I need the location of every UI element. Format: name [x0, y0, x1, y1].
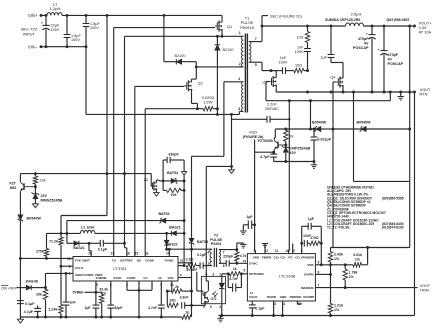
svg-text:1%: 1%: [101, 291, 106, 295]
svg-text:1: 1: [207, 262, 209, 266]
resistor 10k z1: [163, 188, 185, 197]
wire vdd row y129: [275, 128, 315, 130]
svg-text:B0540W: B0540W: [357, 121, 372, 125]
node top rail x164: [162, 14, 165, 17]
wire T1 pin4 to pgnd: [224, 82, 244, 157]
svg-text:11: 11: [275, 249, 279, 253]
capacitor 4.7uF vdd: [260, 152, 277, 161]
optocoupler transistor: [201, 290, 217, 302]
svg-text:+: +: [41, 21, 44, 26]
resistor 1.24k: [49, 305, 64, 318]
svg-text:VIN−: VIN−: [28, 45, 38, 50]
svg-text:BAT54: BAT54: [158, 212, 169, 216]
optocoupler collector: [206, 276, 208, 289]
svg-text:1μF: 1μF: [246, 215, 252, 219]
wire pwrgd stub: [297, 301, 301, 304]
node cap row x124: [123, 242, 126, 245]
wire VCC bus down: [19, 258, 21, 317]
svg-text:4V: 4V: [388, 58, 393, 62]
svg-text:FZT600B: FZT600B: [258, 139, 274, 143]
transistor Z1: [144, 174, 157, 192]
wire FZT600B base: [278, 144, 286, 146]
wire VFB leg down: [330, 265, 332, 304]
svg-text:7: 7: [255, 37, 257, 41]
node L2 x67: [65, 232, 68, 235]
svg-text:(800)554-5565: (800)554-5565: [382, 196, 404, 200]
svg-text:470Ω: 470Ω: [310, 236, 319, 240]
svg-text:ON: ON: [1, 286, 7, 290]
node VIN- x46: [45, 45, 48, 48]
svg-text:10k: 10k: [171, 193, 177, 197]
svg-text:1.5μF: 1.5μF: [71, 34, 81, 38]
svg-text:4.7k: 4.7k: [240, 254, 247, 258]
capacitor 2.2nF 250VAC: [265, 102, 279, 122]
node vpower right: [320, 242, 323, 245]
node cap row x89: [88, 242, 91, 245]
wire notes box top: [354, 92, 410, 181]
wire pgnd vertical lower: [191, 244, 193, 317]
svg-text:PA0918: PA0918: [240, 25, 254, 30]
node optodrv left: [227, 272, 230, 275]
node Q1 source: [221, 35, 224, 38]
svg-text:+: +: [365, 31, 368, 36]
svg-text:0.020Ω: 0.020Ω: [202, 96, 215, 100]
svg-text:270k: 270k: [36, 250, 44, 254]
wire Ycap drop: [232, 114, 267, 166]
wire sync row: [229, 259, 247, 263]
wire pin20 stub: [89, 243, 91, 256]
svg-text:100V: 100V: [279, 61, 288, 65]
wire pin18 stub: [125, 243, 127, 256]
svg-text:20k: 20k: [40, 179, 46, 183]
wire 5vref row: [85, 281, 96, 292]
wire FG drop: [288, 101, 291, 254]
wire pin16 row: [178, 258, 193, 264]
svg-text:VFB: VFB: [168, 276, 175, 280]
zener MMSZ5245B 15V: [32, 187, 63, 208]
transformer T1 secondary: [249, 37, 257, 67]
wire FZT600B collector: [273, 129, 276, 139]
svg-text:5: 5: [244, 268, 246, 272]
LT3781 bottom pin numbers: [96, 283, 174, 287]
wire right sense bus lower: [409, 129, 411, 248]
svg-text:6: 6: [223, 264, 225, 268]
node RTN x353: [352, 91, 355, 94]
svg-text:VDD: VDD: [249, 129, 257, 134]
resistor 1.78k: [343, 265, 358, 288]
wire UVLO leg: [60, 266, 62, 304]
svg-text:3: 3: [238, 107, 240, 111]
ground T2 sync: [237, 243, 247, 250]
svg-text:100V: 100V: [295, 50, 304, 54]
resistor 71.2k: [49, 232, 63, 266]
svg-text:3: 3: [212, 272, 214, 276]
wire TG gate bus: [114, 28, 215, 257]
optocoupler LED: [219, 276, 224, 303]
wire Z1 drain: [156, 179, 163, 182]
capacitor 1.5uF 100V b: [83, 15, 101, 46]
LTC1698 bottom labels: [267, 295, 314, 299]
node drive node: [183, 219, 186, 222]
svg-text:2.2nF: 2.2nF: [267, 102, 277, 106]
wire vpower right leg: [320, 226, 322, 264]
svg-text:5VREF: 5VREF: [186, 268, 198, 272]
resistor 270k: [36, 233, 49, 258]
svg-text:10Ω: 10Ω: [296, 36, 303, 40]
capacitor 1uF secondary: [320, 26, 334, 61]
resistor 3.3 ohm: [178, 257, 200, 267]
svg-text:5: 5: [255, 63, 257, 67]
svg-text:62pF: 62pF: [115, 306, 123, 310]
svg-text:14: 14: [250, 291, 254, 295]
svg-text:1/2W: 1/2W: [204, 100, 213, 104]
svg-text:1%: 1%: [334, 257, 340, 261]
wire opto pin5 down: [204, 304, 206, 306]
LTC1698 left pin number 5: [244, 268, 246, 272]
diode B2100 bootstrap: [175, 54, 197, 65]
resistor 10k shdn: [36, 288, 48, 317]
svg-text:(619)674-8100: (619)674-8100: [382, 226, 404, 230]
node vdd mid: [331, 128, 358, 130]
resistor 470 ohm vpower: [307, 236, 321, 245]
svg-text:MMSZ5245B: MMSZ5245B: [41, 199, 63, 203]
transformer T2 label: [210, 234, 223, 247]
svg-text:1: 1: [239, 31, 241, 35]
wire T2 pin7 row: [219, 249, 237, 251]
wire pin9 stub: [178, 273, 192, 277]
svg-text:+: +: [377, 47, 380, 52]
node 22uF top: [45, 14, 48, 17]
svg-text:9: 9: [318, 270, 320, 274]
svg-text:SYNC: SYNC: [249, 261, 258, 265]
resistor 10 ohm snubber A: [296, 26, 309, 43]
svg-text:GND: GND: [280, 295, 288, 299]
capacitor 1uF vpower: [302, 217, 322, 230]
diode BAT54 catch T2: [189, 238, 208, 245]
LT3781 pin 13: [67, 257, 90, 263]
wire left rail y173.6: [20, 173, 151, 175]
wire right sense bus upper: [409, 26, 411, 129]
LT3781 pin 2: [69, 264, 84, 270]
node Z1 drain node: [162, 179, 165, 182]
node top rail x67: [66, 14, 69, 17]
svg-text:LTC1698: LTC1698: [279, 274, 296, 279]
svg-text:4.7nF: 4.7nF: [229, 277, 238, 281]
wire opto pin1 up: [222, 274, 228, 277]
label 36V-72V INPUT: [21, 27, 38, 37]
svg-text:4: 4: [238, 77, 240, 81]
node RTN x409: [408, 91, 411, 94]
svg-text:22μF: 22μF: [51, 24, 60, 28]
node bat54 cathode: [183, 179, 186, 182]
svg-text:VIN+: VIN+: [28, 13, 38, 18]
resistor 10 ohm snubber B: [286, 63, 308, 73]
ground primary 2: [229, 166, 235, 173]
resistor 10 ohm vc: [167, 299, 178, 308]
inductor L1 1.2uH: [47, 2, 62, 16]
svg-text:1μF: 1μF: [308, 217, 314, 221]
node rail 20k: [34, 172, 37, 175]
svg-text:AT 10A: AT 10A: [419, 30, 432, 35]
transformer T2 core: [214, 248, 216, 267]
capacitor 10nF vpower: [303, 234, 311, 247]
svg-text:(FIGURE 2b): (FIGURE 2b): [243, 135, 264, 139]
op-amp U2 LTC1698 box: [247, 254, 315, 301]
wire Ycap to FG riser: [270, 118, 290, 120]
node RTN x331: [330, 91, 333, 94]
ground open inline: [182, 172, 187, 181]
transformer T1 label: [240, 16, 254, 30]
capacitor 0.1uF vcc left: [17, 301, 35, 306]
ground vdd: [311, 160, 317, 168]
LTC1698 bottom numbers: [274, 302, 301, 306]
inductor L2 1mH: [80, 226, 95, 234]
LT3781 pin13 wire dot: [0, 0, 1, 1]
node vdd riser: [309, 128, 312, 131]
svg-text:15V: 15V: [41, 194, 48, 198]
svg-text:6: 6: [210, 305, 212, 309]
node clamp top: [216, 35, 219, 38]
wire 4.7uF top jog: [0, 0, 1, 1]
wire z1 bus down: [183, 181, 185, 221]
wire opto pin6 stub: [0, 0, 1, 1]
node Ycap tap: [230, 113, 233, 116]
optocoupler pins bottom: [203, 305, 221, 309]
output terminal VOUT+: [413, 21, 432, 35]
wire Q1 source: [221, 32, 223, 36]
svg-text:1.2μH: 1.2μH: [50, 6, 61, 11]
ground Z1 source: [154, 191, 159, 196]
svg-text:VPOWER: VPOWER: [301, 255, 316, 259]
svg-text:1%: 1%: [349, 275, 355, 279]
capacitor 0.1uF vcc row: [89, 240, 125, 252]
wire Q3 gate route FG: [266, 82, 390, 101]
svg-text:L2 1mH: L2 1mH: [81, 226, 94, 230]
capacitor 22uF 100V input: [41, 15, 60, 46]
resistor 1k optodrv: [229, 267, 240, 276]
wire BG gate bus to Q2: [135, 86, 185, 256]
LTC1698 top numbers: [253, 249, 303, 253]
svg-text:220pF: 220pF: [223, 255, 234, 259]
capacitor 470uF POSCAP a: [353, 26, 376, 92]
wire FZT853 emitter: [19, 193, 21, 215]
svg-text:PGND: PGND: [267, 295, 277, 299]
node 5vref node: [94, 291, 97, 294]
node CG row129: [332, 128, 335, 131]
node vpower left: [300, 242, 303, 245]
capacitor 1.5uF 100V a: [64, 15, 82, 46]
svg-text:1: 1: [219, 272, 221, 276]
svg-text:100V: 100V: [90, 26, 99, 30]
node VIN- x67: [66, 45, 69, 48]
svg-text:1.24k: 1.24k: [49, 308, 58, 312]
wire drive bus down: [183, 221, 185, 266]
wire OVPIN row: [315, 273, 330, 275]
wire SW bus y36.3: [125, 36, 240, 243]
optocoupler OT box: [201, 276, 225, 303]
svg-text:0.1μF: 0.1μF: [255, 307, 265, 311]
svg-text:INPUT: INPUT: [23, 32, 36, 37]
svg-text:2: 2: [219, 305, 221, 309]
LT3781 top pin numbers: [88, 252, 170, 256]
svg-text:VAUX: VAUX: [249, 295, 258, 299]
svg-text:4.7nF: 4.7nF: [148, 306, 157, 310]
wire bootstrap bus x164: [164, 15, 176, 61]
capacitor 1uF ref: [84, 292, 99, 317]
capacitor 470uF POSCAP b: [377, 26, 403, 92]
wire Q4 source: [342, 88, 344, 92]
svg-text:BAS21: BAS21: [73, 246, 85, 250]
svg-text:BG: BG: [137, 259, 142, 263]
capacitor 1nF 100V snubber A: [295, 43, 311, 71]
node emitter: [272, 151, 275, 154]
wire VIN- return bus: [86, 47, 239, 115]
wire optodrv to pin: [241, 273, 247, 275]
wire pin10 drop: [167, 281, 172, 291]
wire bootstrap down: [195, 62, 197, 79]
svg-text:Q2: Q2: [198, 81, 203, 85]
wire Q4 drain feed: [331, 61, 343, 77]
svg-text:0.1μF: 0.1μF: [197, 253, 207, 257]
svg-text:T1, T2: PULSE: T1, T2: PULSE: [327, 226, 350, 230]
svg-text:BGTREF: BGTREF: [120, 259, 133, 263]
node sync row: [235, 262, 238, 265]
svg-text:4: 4: [283, 302, 285, 306]
svg-text:PWRGD: PWRGD: [290, 295, 303, 299]
op-amp U1 LT3781 box: [73, 257, 178, 282]
transformer T1 tertiary: [238, 77, 243, 111]
LTC1698 right labels: [301, 263, 314, 290]
svg-text:19: 19: [111, 252, 115, 256]
svg-text:BAT54: BAT54: [167, 171, 178, 175]
node OVPIN: [329, 273, 332, 276]
wire T1 pin3 to rail: [239, 111, 243, 114]
node vdd 2k: [284, 128, 287, 131]
svg-text:1μF: 1μF: [320, 56, 327, 60]
svg-text:853: 853: [10, 186, 16, 190]
svg-text:7: 7: [318, 284, 320, 288]
svg-text:1nF: 1nF: [297, 45, 304, 49]
diode B0540W linear: [18, 215, 42, 259]
LT3781 top labels: [112, 259, 174, 263]
capacitor 3.3nF vc: [180, 295, 192, 308]
svg-text:VOUT: VOUT: [420, 284, 431, 288]
diode BAT54 z1: [163, 171, 184, 183]
capacitor 1uF VDD bypass: [240, 215, 255, 235]
capacitor 220pF sync: [219, 255, 234, 267]
capacitor 4.7uF vcc: [24, 306, 41, 318]
wire cg stub: [292, 244, 294, 254]
wire vdd pin1: [254, 251, 257, 254]
node rail x124: [123, 172, 126, 175]
svg-text:2k: 2k: [175, 285, 179, 289]
svg-text:71.2k: 71.2k: [49, 240, 58, 244]
ground secondary: [217, 316, 223, 322]
output terminal VOUT RTN: [413, 87, 431, 97]
svg-text:15: 15: [135, 252, 139, 256]
node gnd166: [230, 165, 233, 168]
node out x372: [371, 25, 374, 28]
wire RTN right bus: [414, 92, 416, 316]
wire current sense bus: [145, 109, 203, 257]
svg-text:TRIM: TRIM: [420, 289, 429, 293]
node rail x331: [330, 25, 333, 28]
label VDD FIGURE 2b: [243, 129, 264, 152]
svg-text:B2100: B2100: [175, 54, 186, 58]
input terminal VIN-: [28, 45, 43, 50]
svg-text:100V: 100V: [71, 38, 80, 42]
svg-text:1.5μF: 1.5μF: [90, 22, 100, 26]
svg-text:4: 4: [205, 272, 207, 276]
svg-text:B0540W: B0540W: [27, 216, 42, 220]
wire opto pin2 down: [220, 304, 223, 317]
diode B0540W vdd1: [312, 121, 330, 132]
transistor FZT600B: [258, 139, 278, 151]
wire pgnd vertical upper: [191, 156, 193, 238]
svg-text:1μF: 1μF: [84, 306, 90, 310]
wire ltc pgnd gnd: [272, 301, 284, 317]
svg-text:Q1: Q1: [227, 25, 232, 29]
node top rail x107: [106, 14, 109, 17]
node shdn node: [44, 286, 47, 289]
wire Q4 gate bus CG: [333, 82, 336, 248]
wire notes box bottom: [331, 247, 410, 249]
resistor 2k vc: [172, 285, 192, 294]
capacitor 4.7nF cc: [148, 281, 165, 317]
svg-text:100V: 100V: [51, 28, 60, 32]
transistor Q3: [262, 71, 277, 88]
wire row215 corner: [60, 216, 62, 238]
node 3.3ohm left: [183, 264, 186, 267]
svg-text:2.5μH: 2.5μH: [351, 12, 362, 17]
LTC1698 right numbers: [318, 261, 320, 288]
svg-text:0.022μF: 0.022μF: [318, 138, 332, 142]
wire L2 row right: [95, 232, 170, 234]
wire Z1 node vertical: [162, 160, 164, 190]
node VCC 270k: [45, 257, 48, 260]
svg-text:16: 16: [180, 258, 184, 262]
diode B2100 clamp: [215, 36, 234, 108]
notes text block: [327, 185, 404, 229]
label 5VREF secondary: [186, 268, 198, 272]
node 2k bottom: [284, 144, 287, 147]
wire Q3 source to rail: [276, 88, 414, 92]
svg-text:16: 16: [243, 259, 247, 263]
transformer T2 secondary: [219, 250, 221, 264]
svg-text:2k: 2k: [290, 135, 294, 139]
optocoupler pins top: [205, 272, 221, 276]
wire pin14 row: [167, 248, 212, 250]
wire 5vref opto: [197, 272, 202, 291]
svg-text:20: 20: [88, 252, 92, 256]
svg-text:OVPIN: OVPIN: [304, 273, 314, 277]
wire sense right: [213, 109, 217, 115]
svg-text:1%: 1%: [334, 308, 340, 312]
svg-text:10Ω: 10Ω: [295, 63, 302, 67]
svg-text:Q4: Q4: [330, 76, 335, 80]
wire primary gnd rail: [20, 316, 181, 318]
svg-text:13: 13: [67, 257, 71, 261]
node VFB div: [329, 263, 332, 266]
svg-text:10k: 10k: [36, 293, 42, 297]
svg-text:B0540W: B0540W: [312, 121, 327, 125]
svg-text:OT1: OT1: [211, 297, 217, 301]
wire FG riser to rail: [389, 92, 391, 101]
svg-text:P0203: P0203: [211, 242, 221, 246]
capacitor 0.022uF vdd: [311, 128, 332, 162]
resistor 1k pgnd: [182, 310, 192, 319]
label SEC FIGURE 2b: [262, 13, 302, 26]
